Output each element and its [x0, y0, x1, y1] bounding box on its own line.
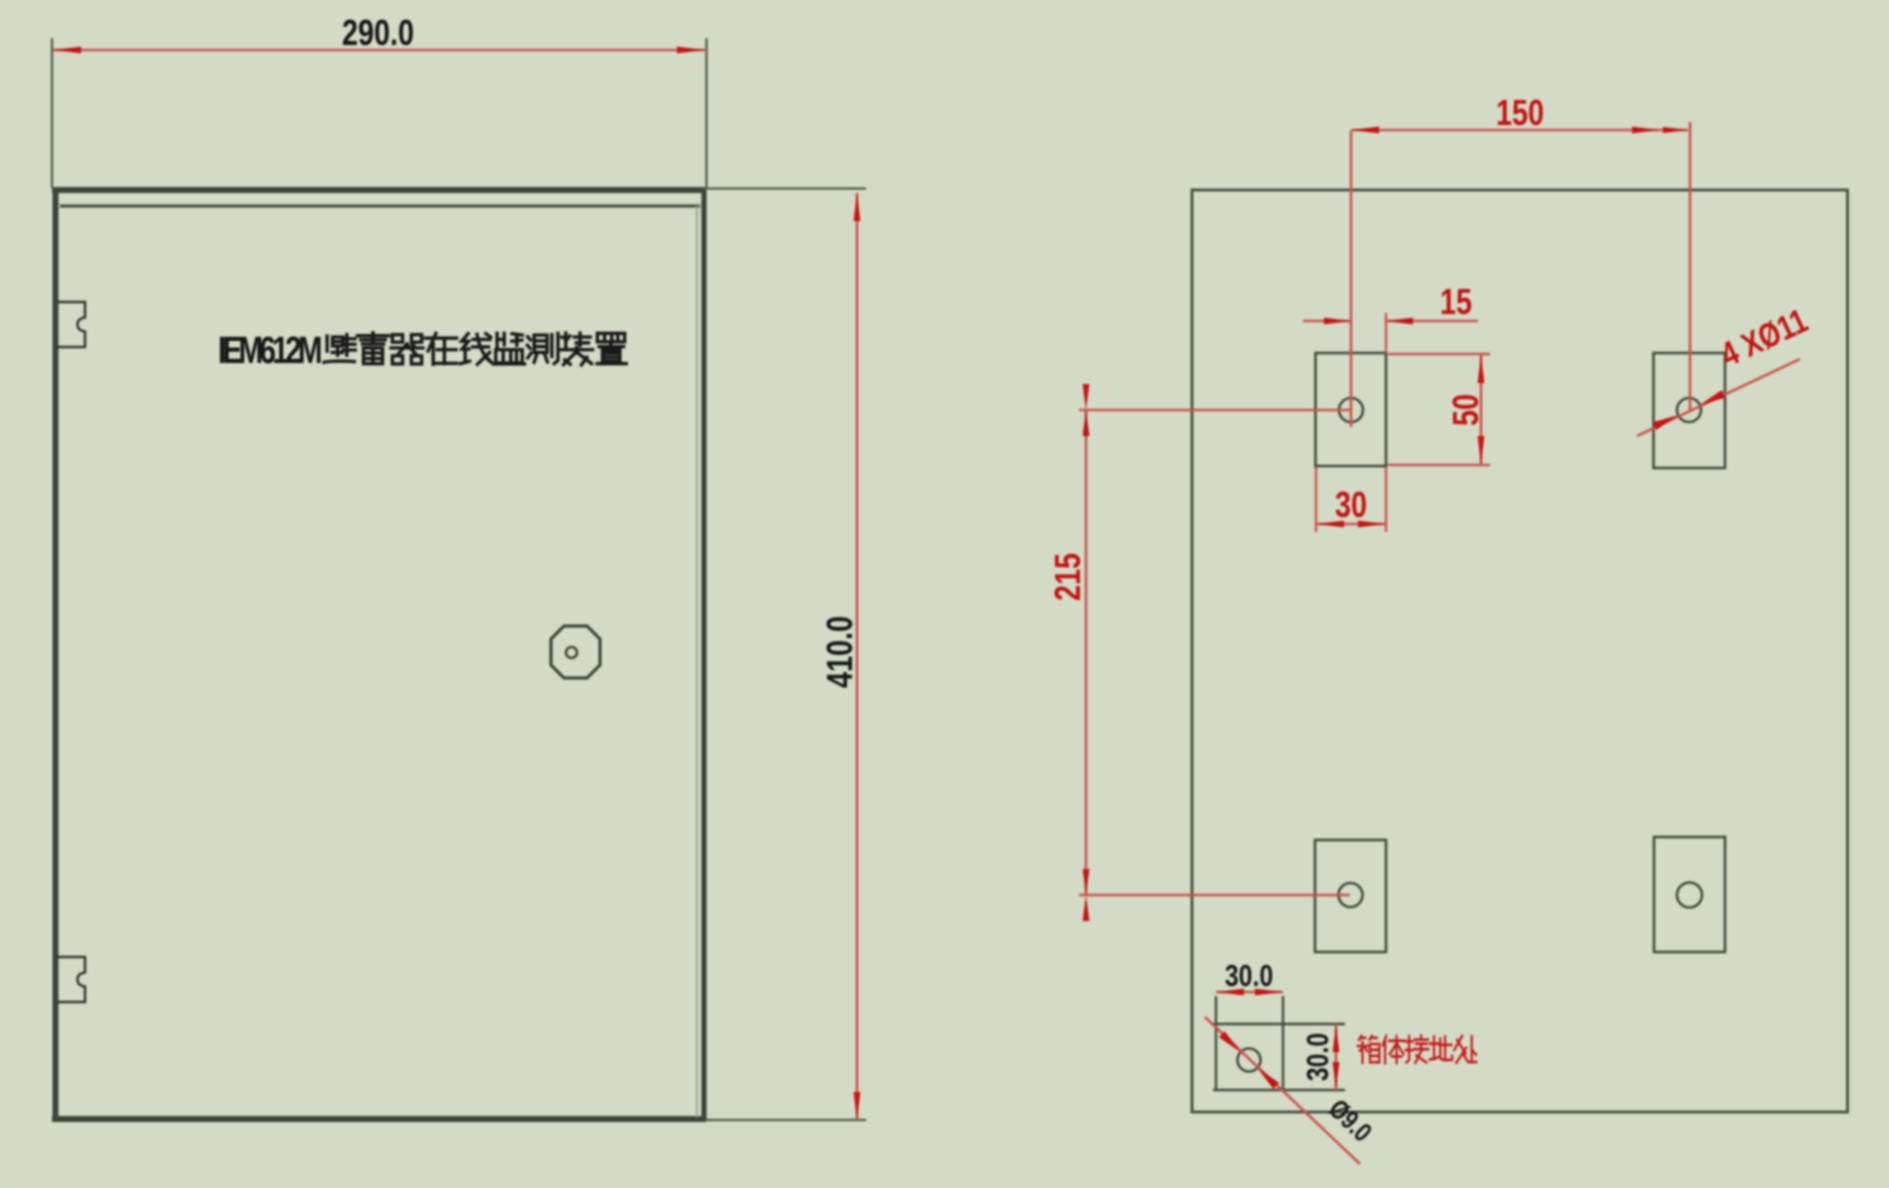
- svg-text:150: 150: [1496, 92, 1544, 133]
- dimension 290.0 line: [53, 49, 705, 52]
- hole upper-right: [1677, 398, 1701, 422]
- dimension 410.0 line: [856, 193, 859, 1120]
- title CJK glyphs 避雷器在线监测装置: [324, 333, 626, 365]
- dimension 410.0 extension line bottom: [706, 1119, 866, 1121]
- dimension 215 extension line bottom: [1079, 894, 1350, 897]
- mounting slot upper-right: [1654, 353, 1726, 468]
- svg-text:215: 215: [1047, 553, 1088, 601]
- enclosure front view: box outline: [52, 190, 706, 1121]
- upper hinge tab: [57, 302, 85, 347]
- dimension 215 arrows: [1083, 384, 1090, 410]
- dimension 150 left arrow: [1351, 127, 1379, 134]
- center line from 150 to upper-right hole: [1689, 122, 1692, 410]
- char 线: [460, 334, 491, 365]
- door right seam line: [696, 206, 698, 1117]
- svg-text:30.0: 30.0: [1300, 1033, 1334, 1081]
- dimension 410.0 top arrow: [854, 193, 861, 221]
- door lock octagon: [551, 626, 600, 678]
- dimension 50 extension lines: [1388, 353, 1490, 355]
- title latin text IEM612M: [218, 330, 323, 372]
- hole lower-right: [1677, 883, 1702, 908]
- dimension 15 left tail and arrow: [1303, 320, 1351, 323]
- char 处: [1454, 1036, 1476, 1063]
- dimension 290.0 extension line left: [51, 38, 53, 188]
- char 装: [561, 333, 592, 365]
- char 监: [493, 333, 524, 364]
- center line from 150 to upper-left hole: [1350, 131, 1353, 427]
- char 体: [1383, 1036, 1405, 1063]
- dimension 30.0 horizontal over ground pad: [1216, 991, 1283, 994]
- leader 4xD11 arrows: [1653, 415, 1678, 430]
- char 箱: [1358, 1036, 1380, 1063]
- hole upper-left: [1339, 398, 1363, 422]
- dimension 30.0 vertical right of ground pad: [1335, 1024, 1338, 1090]
- mounting slot upper-left: [1316, 353, 1387, 466]
- dimension 30 line: [1316, 523, 1386, 526]
- dimension 215 line: [1085, 410, 1088, 895]
- dimension 410.0 bottom arrow: [854, 1092, 861, 1120]
- svg-text:IEM612M: IEM612M: [218, 330, 323, 372]
- lower hinge tab: [57, 957, 85, 1002]
- dimension 30 text: [1335, 484, 1367, 525]
- mounting plate rear view outline: [1192, 190, 1848, 1112]
- svg-text:30: 30: [1335, 484, 1367, 525]
- dimension 290.0 text: [342, 12, 414, 53]
- dimension 15 extension line: [1385, 313, 1387, 353]
- dimension 150 text: [1496, 92, 1544, 133]
- char 置: [597, 333, 626, 363]
- leader 4xD11 line: [1637, 359, 1800, 436]
- door top seam line: [60, 204, 700, 207]
- lock keyhole circle: [566, 647, 577, 658]
- mounting slot lower-right: [1654, 837, 1725, 952]
- dimension 290.0 left arrow: [53, 47, 81, 54]
- dimension 50 line: [1480, 354, 1483, 465]
- dimension 410.0 extension line top: [703, 187, 866, 189]
- dimension 150 right arrows: [1632, 127, 1659, 134]
- label D9.0 text: [1323, 1094, 1377, 1148]
- dimension 30 extension lines: [1315, 467, 1317, 532]
- dimension 30 arrows: [1316, 521, 1344, 528]
- char 在: [425, 333, 456, 364]
- char 接: [1406, 1036, 1429, 1063]
- ground pad hole: [1238, 1049, 1261, 1072]
- dimension 150 line: [1351, 129, 1688, 132]
- char 地: [1430, 1036, 1452, 1059]
- dimension 215 extension line top: [1079, 409, 1351, 412]
- dimension 15 right tail and arrow: [1386, 320, 1478, 323]
- svg-text:50: 50: [1445, 394, 1486, 426]
- char 避: [324, 335, 355, 363]
- dimension 410.0 text: [819, 616, 860, 688]
- label 4xD11 text: [1715, 301, 1814, 374]
- dimension 290.0 right arrow: [677, 47, 705, 54]
- svg-text:15: 15: [1440, 281, 1472, 322]
- dimension 290.0 extension line right: [705, 38, 707, 188]
- ground hole leader arrows: [1219, 1031, 1241, 1052]
- label ground point CJK 箱体接地处: [1358, 1036, 1477, 1064]
- dimension 215 text: [1047, 553, 1088, 601]
- svg-text:410.0: 410.0: [819, 616, 860, 688]
- dimension 15 text: [1440, 281, 1472, 322]
- ground hole leader line: [1205, 1017, 1360, 1164]
- dimension 50 text: [1445, 394, 1486, 426]
- char 雷: [357, 333, 388, 364]
- dimension 50 arrows: [1478, 355, 1485, 383]
- svg-text:30.0: 30.0: [1225, 958, 1273, 992]
- ground pad square: [1213, 996, 1345, 1090]
- mounting slot lower-left: [1315, 840, 1386, 952]
- char 测: [527, 333, 558, 363]
- svg-text:290.0: 290.0: [342, 12, 414, 53]
- hole lower-left: [1339, 883, 1363, 907]
- char 器: [391, 335, 423, 364]
